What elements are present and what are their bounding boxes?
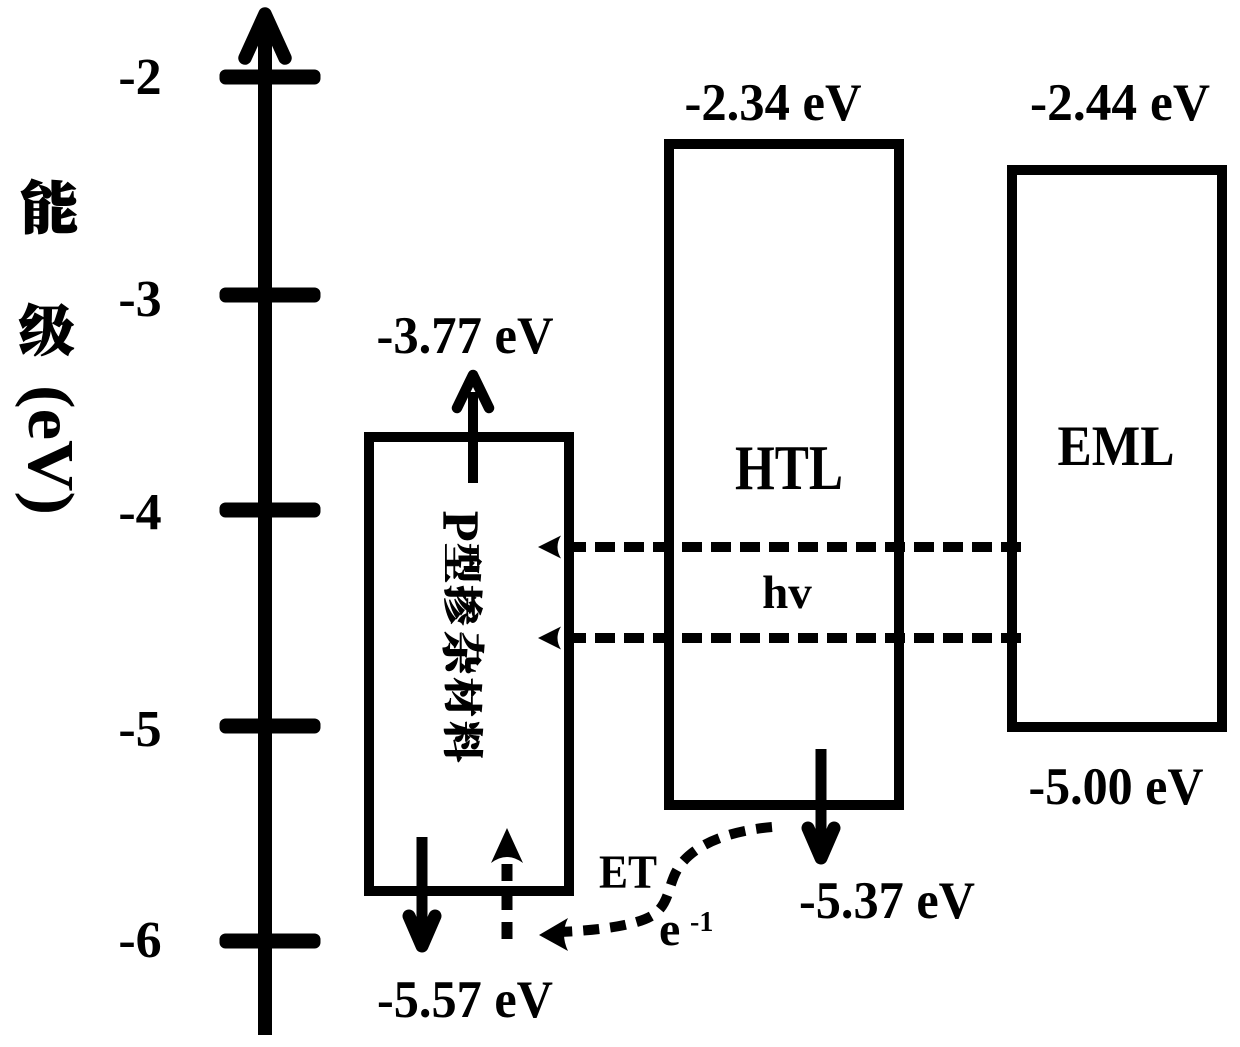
P-doped material box (369, 437, 569, 891)
up arrow from P box head (457, 375, 489, 408)
svg-text:-2: -2 (118, 49, 161, 106)
vertical label char 材 (445, 678, 482, 716)
svg-text:e: e (659, 903, 680, 956)
axis line (258, 30, 272, 1035)
hv dashed arrow 1 line (566, 542, 1030, 552)
dashed up arrow shaft (502, 864, 513, 941)
svg-text:-1: -1 (690, 907, 713, 938)
ET curve arrowhead (539, 918, 568, 951)
svg-text:-3: -3 (118, 271, 161, 328)
vertical label char 型 (445, 544, 481, 582)
svg-text:EML: EML (1058, 415, 1175, 478)
HTL box (669, 144, 899, 805)
hv dashed arrow 1 head (538, 536, 561, 559)
svg-text:-5.57 eV: -5.57 eV (377, 971, 553, 1029)
svg-text:HTL: HTL (735, 432, 843, 503)
axis tick -6 (220, 934, 321, 949)
svg-text:-5: -5 (118, 701, 161, 758)
svg-text:-5.37 eV: -5.37 eV (799, 872, 975, 930)
vertical label char 杂 (443, 632, 484, 673)
ET dashed curve (560, 827, 772, 932)
axis title char 能 (21, 179, 77, 234)
svg-text:hv: hv (762, 567, 812, 619)
HTL down arrow head (808, 828, 834, 858)
vertical label char 料 (444, 722, 483, 762)
hv dashed arrow 2 head (538, 627, 561, 650)
axis tick -2 (220, 70, 321, 85)
EML box (1012, 170, 1222, 727)
solid down arrow at P box bottom shaft (417, 837, 428, 934)
axis tick -4 (220, 503, 321, 518)
up arrow from P box (LUMO) shaft (468, 392, 478, 483)
svg-text:-2.34 eV: -2.34 eV (685, 74, 862, 132)
svg-text:-6: -6 (118, 912, 161, 969)
svg-text:-4: -4 (118, 484, 161, 541)
axis arrowhead (245, 14, 285, 58)
axis tick -3 (220, 288, 321, 303)
solid down arrow head (409, 916, 435, 946)
svg-text:-3.77 eV: -3.77 eV (377, 307, 554, 365)
svg-text:-5.00 eV: -5.00 eV (1029, 758, 1204, 816)
svg-text:-2.44 eV: -2.44 eV (1030, 74, 1210, 132)
hv dashed arrow 2 line (566, 633, 1030, 643)
axis tick -5 (220, 719, 321, 734)
axis title char 级 (19, 303, 73, 356)
dashed up arrow head (491, 828, 523, 863)
HTL down arrow (HOMO) shaft (816, 749, 827, 846)
vertical label char 掺 (444, 586, 482, 625)
svg-text:ET: ET (599, 846, 657, 899)
svg-text:(eV): (eV) (14, 385, 87, 515)
vertical label char P (444, 512, 478, 540)
